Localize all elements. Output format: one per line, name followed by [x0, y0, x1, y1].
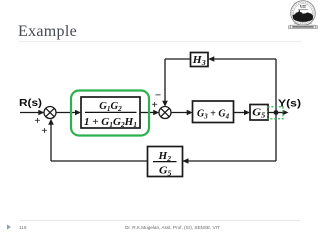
- svg-text:R(s): R(s): [19, 98, 42, 109]
- svg-text:Y(s): Y(s): [278, 99, 301, 110]
- svg-text:+: +: [41, 125, 47, 137]
- svg-text:VIT: VIT: [300, 5, 307, 9]
- svg-text:+: +: [34, 115, 40, 127]
- svg-text:G3 + G4: G3 + G4: [197, 107, 229, 120]
- svg-text:−: −: [155, 90, 161, 102]
